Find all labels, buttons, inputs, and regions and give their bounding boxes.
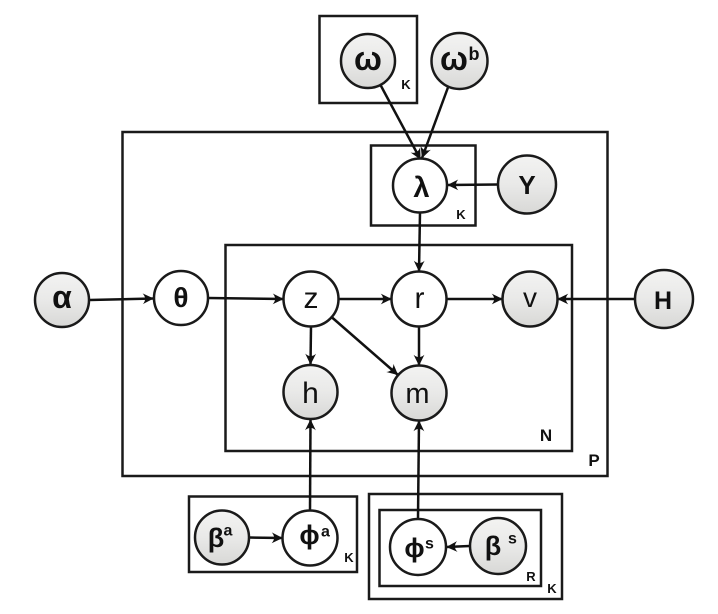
wire alpha to theta — [90, 299, 154, 301]
svg-text:ω: ω — [354, 40, 382, 77]
node r — [392, 272, 447, 327]
svg-text:K: K — [344, 550, 354, 565]
node Y — [498, 156, 556, 214]
svg-text:s: s — [508, 531, 517, 548]
wire phi-s to m — [418, 421, 419, 519]
node lambda — [393, 159, 447, 213]
node theta — [154, 271, 208, 325]
svg-text:K: K — [456, 207, 466, 222]
node h — [284, 365, 338, 419]
plate K (beta-a phi-a) — [189, 497, 357, 573]
svg-text:β: β — [485, 531, 501, 561]
svg-text:K: K — [401, 77, 411, 92]
svg-text:b: b — [469, 44, 480, 64]
svg-text:r: r — [415, 282, 425, 315]
wire omega to lambda — [381, 85, 421, 160]
svg-text:P: P — [588, 451, 599, 470]
plate P — [123, 132, 608, 476]
node phi-s — [390, 519, 446, 575]
plate K (omega) — [320, 16, 418, 103]
wire H to v — [558, 298, 636, 301]
wire Y to lambda — [448, 183, 499, 186]
wire z to m — [332, 317, 399, 375]
svg-text:a: a — [321, 524, 330, 541]
svg-text:z: z — [304, 282, 319, 315]
svg-text:θ: θ — [173, 282, 188, 313]
node omega-b — [432, 33, 488, 89]
svg-text:s: s — [425, 536, 434, 553]
plate R (inner bottom right) — [380, 510, 542, 586]
svg-text:ω: ω — [440, 40, 468, 77]
node phi-a — [283, 511, 338, 566]
wire z to h — [309, 327, 312, 365]
svg-text:v: v — [523, 282, 537, 313]
wire phi-a to h — [309, 420, 312, 511]
svg-text:ϕ: ϕ — [404, 533, 424, 563]
svg-text:Y: Y — [518, 170, 535, 200]
node beta-s — [470, 518, 526, 574]
svg-text:h: h — [302, 377, 319, 410]
svg-text:H: H — [654, 287, 672, 315]
svg-text:N: N — [540, 426, 552, 445]
svg-text:β: β — [208, 523, 224, 553]
wire beta-s to phi-s — [447, 546, 470, 547]
wire z to r — [339, 298, 392, 301]
svg-text:ϕ: ϕ — [299, 520, 319, 550]
wire r to v — [447, 298, 503, 301]
svg-text:m: m — [405, 378, 429, 410]
svg-text:a: a — [224, 523, 233, 540]
node beta-a — [195, 511, 249, 565]
svg-text:K: K — [547, 581, 557, 596]
wire omega-b to lambda — [422, 86, 449, 158]
node omega — [341, 34, 395, 88]
node alpha — [35, 273, 89, 327]
svg-text:R: R — [526, 569, 536, 584]
node v — [503, 272, 558, 327]
wire theta to z — [209, 298, 284, 299]
plate N — [226, 245, 573, 451]
svg-text:α: α — [52, 279, 72, 315]
svg-text:λ: λ — [413, 172, 429, 204]
plate K (outer bottom right) — [369, 494, 562, 599]
node m — [392, 366, 447, 421]
node H — [635, 270, 693, 328]
wire lambda to r — [419, 213, 420, 272]
node z — [284, 272, 339, 327]
plate K (lambda) — [371, 146, 476, 226]
wire r to m — [418, 327, 421, 366]
wire beta-a to phi-a — [250, 536, 283, 539]
